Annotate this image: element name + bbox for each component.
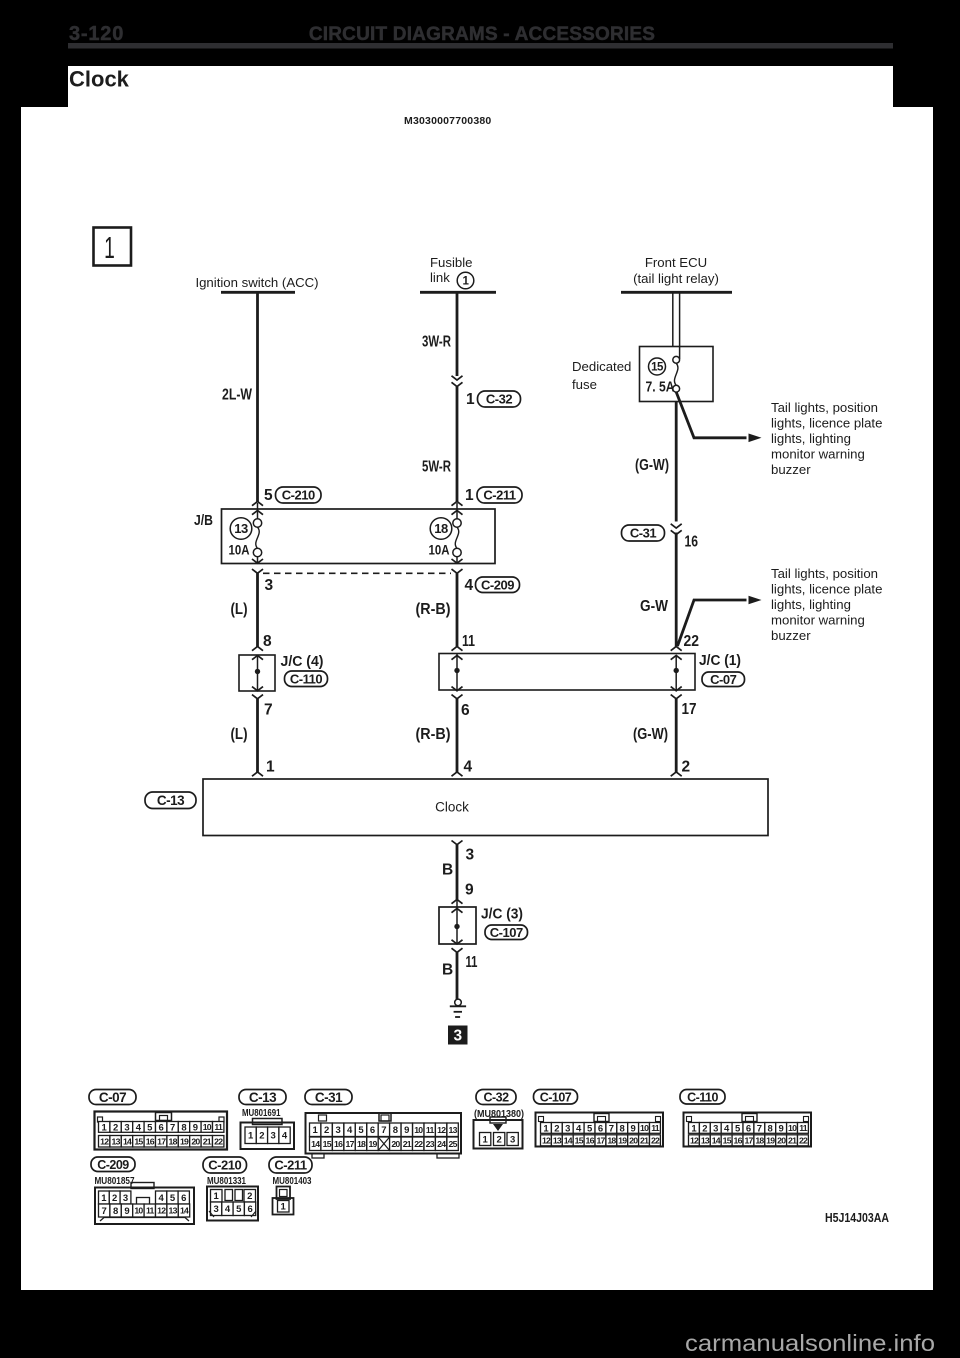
svg-text:11: 11 bbox=[799, 1123, 808, 1133]
svg-text:14: 14 bbox=[564, 1135, 573, 1145]
svg-text:6: 6 bbox=[247, 1204, 252, 1215]
svg-text:B: B bbox=[442, 862, 453, 879]
svg-text:link: link bbox=[430, 270, 450, 285]
svg-text:Fusible: Fusible bbox=[430, 255, 473, 270]
connector pinout C-209 bbox=[91, 1157, 194, 1224]
dashed tie line C-209 bbox=[263, 572, 451, 574]
ground symbol bbox=[455, 999, 462, 1006]
svg-text:J/C (4): J/C (4) bbox=[281, 654, 324, 670]
svg-text:16: 16 bbox=[685, 534, 699, 551]
svg-text:C-211: C-211 bbox=[274, 1158, 306, 1173]
svg-text:6: 6 bbox=[598, 1123, 603, 1134]
svg-text:6: 6 bbox=[461, 702, 470, 719]
svg-text:lights, lighting: lights, lighting bbox=[771, 431, 851, 446]
svg-text:C-07: C-07 bbox=[99, 1090, 126, 1105]
wire (R-B) upper bbox=[456, 573, 459, 646]
svg-text:18: 18 bbox=[357, 1139, 366, 1149]
svg-text:11: 11 bbox=[466, 954, 478, 971]
svg-text:6: 6 bbox=[181, 1193, 186, 1204]
svg-text:17: 17 bbox=[157, 1136, 166, 1146]
svg-text:14: 14 bbox=[311, 1139, 320, 1149]
svg-text:C-31: C-31 bbox=[630, 526, 656, 541]
wire (L) lower bbox=[256, 699, 259, 772]
ground point 3 box bbox=[448, 1026, 468, 1045]
svg-text:20: 20 bbox=[391, 1139, 400, 1149]
svg-text:22: 22 bbox=[684, 633, 700, 650]
svg-text:1: 1 bbox=[101, 1193, 107, 1204]
fuse 13 symbol bbox=[257, 503, 259, 519]
svg-text:4: 4 bbox=[465, 577, 474, 594]
svg-text:1: 1 bbox=[266, 759, 275, 776]
svg-text:J/C (1): J/C (1) bbox=[699, 653, 741, 669]
svg-text:2: 2 bbox=[259, 1131, 264, 1142]
svg-text:7: 7 bbox=[102, 1206, 107, 1217]
svg-text:(L): (L) bbox=[231, 601, 248, 618]
svg-text:12: 12 bbox=[542, 1135, 551, 1145]
connector pinout C-211 bbox=[269, 1157, 312, 1215]
svg-text:8: 8 bbox=[181, 1122, 186, 1133]
ignition switch terminal bar bbox=[221, 291, 295, 294]
wire 5W-R C-32 to J/B bbox=[456, 387, 459, 502]
svg-text:8: 8 bbox=[113, 1206, 118, 1217]
connector marks J/C(1) right exit bbox=[671, 687, 682, 691]
svg-text:4: 4 bbox=[724, 1123, 730, 1134]
joint connector J/C(1) box bbox=[439, 654, 695, 691]
svg-text:9: 9 bbox=[124, 1206, 129, 1217]
svg-text:1: 1 bbox=[104, 232, 115, 266]
svg-text:19: 19 bbox=[368, 1139, 377, 1149]
svg-text:5: 5 bbox=[170, 1193, 176, 1204]
svg-text:22: 22 bbox=[414, 1139, 423, 1149]
svg-text:MU801403: MU801403 bbox=[273, 1175, 312, 1187]
connector pinout C-31 bbox=[305, 1090, 461, 1159]
junction block J/B box bbox=[222, 509, 496, 564]
svg-text:C-07: C-07 bbox=[710, 672, 736, 687]
svg-text:20: 20 bbox=[629, 1135, 638, 1145]
svg-text:2: 2 bbox=[554, 1123, 559, 1134]
wire 3W-R fusible link to C-32 bbox=[456, 292, 459, 376]
connector marks J/C(3) exit bbox=[452, 940, 463, 944]
svg-text:10A: 10A bbox=[229, 543, 250, 558]
svg-text:4: 4 bbox=[282, 1131, 288, 1142]
svg-text:15: 15 bbox=[134, 1136, 143, 1146]
connector pinout C-07 bbox=[89, 1090, 227, 1150]
svg-text:3: 3 bbox=[123, 1193, 128, 1204]
svg-text:21: 21 bbox=[203, 1136, 212, 1146]
svg-text:(MU801380): (MU801380) bbox=[474, 1109, 524, 1120]
svg-text:15: 15 bbox=[723, 1135, 732, 1145]
svg-text:15: 15 bbox=[651, 362, 664, 374]
svg-text:1: 1 bbox=[691, 1123, 697, 1134]
svg-text:4: 4 bbox=[464, 759, 473, 776]
connector label C-32 bbox=[478, 391, 521, 407]
svg-text:C-211: C-211 bbox=[483, 488, 515, 503]
svg-text:6: 6 bbox=[746, 1123, 751, 1134]
junction dot J/C(1) left bbox=[454, 668, 459, 673]
svg-text:7: 7 bbox=[609, 1123, 614, 1134]
wire 2L-W ignition switch to J/B bbox=[256, 292, 259, 502]
svg-text:7: 7 bbox=[381, 1125, 386, 1136]
svg-text:(tail light relay): (tail light relay) bbox=[633, 271, 719, 286]
wire G-W C-31 to J/C(1) bbox=[675, 533, 678, 647]
svg-text:M3030007700380: M3030007700380 bbox=[404, 115, 491, 127]
svg-text:C-110: C-110 bbox=[687, 1090, 718, 1104]
svg-text:7: 7 bbox=[757, 1123, 762, 1134]
dedicated fuse box bbox=[640, 347, 714, 402]
svg-text:(L): (L) bbox=[231, 726, 248, 743]
fuse symbol 7.5A bbox=[673, 356, 680, 363]
svg-text:C-107: C-107 bbox=[540, 1090, 572, 1104]
svg-text:lights, licence plate: lights, licence plate bbox=[771, 582, 882, 597]
svg-text:Tail lights, position: Tail lights, position bbox=[771, 566, 878, 581]
connector label C-07 bbox=[702, 672, 745, 687]
svg-text:(R-B): (R-B) bbox=[416, 601, 451, 618]
svg-text:2: 2 bbox=[112, 1193, 117, 1204]
svg-text:Tail lights, position: Tail lights, position bbox=[771, 400, 878, 415]
svg-text:1: 1 bbox=[465, 487, 474, 504]
svg-text:3-120: 3-120 bbox=[69, 23, 124, 45]
svg-text:3W-R: 3W-R bbox=[422, 334, 451, 351]
svg-text:1: 1 bbox=[102, 1122, 108, 1133]
svg-text:carmanualsonline.info: carmanualsonline.info bbox=[685, 1330, 935, 1356]
svg-text:8: 8 bbox=[768, 1123, 773, 1134]
connector marks J/C(4) entry bbox=[252, 647, 263, 651]
connector label C-209 bbox=[476, 577, 520, 593]
svg-text:C-209: C-209 bbox=[481, 577, 514, 592]
svg-text:J/C (3): J/C (3) bbox=[481, 907, 523, 923]
svg-text:5: 5 bbox=[264, 487, 273, 504]
svg-text:13: 13 bbox=[112, 1136, 121, 1146]
svg-text:11: 11 bbox=[214, 1122, 223, 1132]
junction dot J/C(4) bbox=[255, 669, 260, 674]
svg-text:18: 18 bbox=[755, 1135, 764, 1145]
svg-text:10: 10 bbox=[640, 1123, 649, 1133]
svg-text:11: 11 bbox=[426, 1125, 435, 1135]
svg-text:fuse: fuse bbox=[572, 377, 597, 392]
svg-text:18: 18 bbox=[434, 521, 448, 536]
svg-text:3: 3 bbox=[271, 1131, 276, 1142]
svg-text:21: 21 bbox=[788, 1135, 797, 1145]
svg-text:C-110: C-110 bbox=[290, 671, 322, 686]
fusible link terminal bar bbox=[420, 291, 496, 294]
svg-text:1: 1 bbox=[281, 1202, 287, 1213]
svg-text:16: 16 bbox=[734, 1135, 743, 1145]
svg-text:C-210: C-210 bbox=[208, 1158, 241, 1173]
connector C-31 inline marks bbox=[671, 524, 682, 528]
svg-text:5: 5 bbox=[147, 1122, 153, 1133]
svg-text:6: 6 bbox=[159, 1122, 164, 1133]
clock exit marks bbox=[452, 841, 463, 845]
connector label C-210 bbox=[276, 487, 322, 503]
svg-text:2: 2 bbox=[496, 1134, 501, 1145]
connector pinout C-107 bbox=[534, 1090, 664, 1147]
wire G-W dedicated fuse to C-31 bbox=[675, 402, 678, 522]
wire (L) upper bbox=[256, 573, 259, 646]
connector label C-110 bbox=[285, 671, 328, 687]
svg-text:1: 1 bbox=[214, 1191, 220, 1202]
connector pinout C-13 bbox=[239, 1090, 294, 1150]
svg-text:11: 11 bbox=[651, 1123, 660, 1133]
figure number box 1 bbox=[94, 228, 132, 266]
svg-text:CIRCUIT DIAGRAMS - ACCESSORIES: CIRCUIT DIAGRAMS - ACCESSORIES bbox=[309, 24, 655, 45]
svg-text:2: 2 bbox=[702, 1123, 707, 1134]
svg-text:9: 9 bbox=[465, 882, 474, 899]
title band background bbox=[68, 66, 893, 107]
svg-text:5: 5 bbox=[587, 1123, 593, 1134]
svg-text:monitor warning: monitor warning bbox=[771, 447, 865, 462]
svg-text:3: 3 bbox=[510, 1134, 515, 1145]
svg-text:11: 11 bbox=[462, 633, 475, 650]
connector marks C-209 middle exit bbox=[452, 559, 463, 563]
svg-text:1: 1 bbox=[482, 1134, 488, 1145]
svg-text:Dedicated: Dedicated bbox=[572, 359, 631, 374]
svg-text:14: 14 bbox=[712, 1135, 721, 1145]
svg-text:8: 8 bbox=[263, 633, 272, 650]
svg-text:G-W: G-W bbox=[640, 598, 668, 615]
svg-text:(G-W): (G-W) bbox=[633, 726, 668, 743]
junction dot J/C(1) right bbox=[674, 668, 679, 673]
svg-text:MU801331: MU801331 bbox=[207, 1175, 246, 1187]
connector marks C-209 left exit bbox=[252, 559, 263, 563]
svg-text:8: 8 bbox=[620, 1123, 625, 1134]
svg-text:22: 22 bbox=[214, 1136, 223, 1146]
svg-text:7: 7 bbox=[264, 702, 273, 719]
svg-text:19: 19 bbox=[766, 1135, 775, 1145]
svg-text:21: 21 bbox=[640, 1135, 649, 1145]
svg-text:9: 9 bbox=[631, 1123, 636, 1134]
svg-text:14: 14 bbox=[123, 1136, 132, 1146]
svg-text:17: 17 bbox=[596, 1135, 605, 1145]
svg-text:21: 21 bbox=[403, 1139, 412, 1149]
svg-text:2: 2 bbox=[324, 1125, 329, 1136]
svg-text:1: 1 bbox=[313, 1125, 319, 1136]
fuse 13 circled number bbox=[230, 518, 252, 540]
connector marks J/C(1) middle exit bbox=[452, 687, 463, 691]
svg-text:18: 18 bbox=[169, 1136, 178, 1146]
svg-text:B: B bbox=[442, 962, 453, 979]
svg-text:10: 10 bbox=[414, 1125, 423, 1135]
svg-text:16: 16 bbox=[146, 1136, 155, 1146]
wire B upper bbox=[456, 845, 459, 900]
svg-text:2: 2 bbox=[113, 1122, 118, 1133]
svg-text:5: 5 bbox=[735, 1123, 741, 1134]
svg-text:13: 13 bbox=[701, 1135, 710, 1145]
svg-text:7: 7 bbox=[170, 1122, 175, 1133]
connector marks J/C(3) entry bbox=[452, 900, 463, 904]
fuse 18 symbol bbox=[456, 503, 458, 519]
svg-text:13: 13 bbox=[553, 1135, 562, 1145]
front ECU terminal bar bbox=[621, 291, 732, 294]
svg-text:23: 23 bbox=[426, 1139, 435, 1149]
svg-text:buzzer: buzzer bbox=[771, 628, 811, 643]
svg-text:lights, lighting: lights, lighting bbox=[771, 597, 851, 612]
connector C-32 inline marks bbox=[452, 376, 463, 380]
connector marks C-211 entry bbox=[452, 502, 463, 506]
svg-text:(R-B): (R-B) bbox=[416, 726, 451, 743]
svg-text:20: 20 bbox=[777, 1135, 786, 1145]
svg-text:3: 3 bbox=[124, 1122, 129, 1133]
connector marks J/C(4) exit bbox=[252, 687, 263, 691]
connector pinout C-110 bbox=[680, 1090, 811, 1147]
svg-text:4: 4 bbox=[136, 1122, 142, 1133]
svg-text:13: 13 bbox=[169, 1206, 178, 1216]
svg-text:(G-W): (G-W) bbox=[635, 457, 669, 474]
clock entry marks bbox=[252, 772, 263, 776]
svg-text:buzzer: buzzer bbox=[771, 462, 811, 477]
svg-text:3: 3 bbox=[265, 577, 274, 594]
svg-text:MU801691: MU801691 bbox=[242, 1107, 281, 1119]
svg-text:Clock: Clock bbox=[69, 67, 130, 92]
svg-text:4: 4 bbox=[225, 1204, 231, 1215]
svg-text:17: 17 bbox=[346, 1139, 355, 1149]
svg-text:C-209: C-209 bbox=[97, 1158, 129, 1172]
svg-text:16: 16 bbox=[586, 1135, 595, 1145]
clock component box bbox=[203, 779, 768, 836]
svg-text:12: 12 bbox=[100, 1136, 109, 1146]
fuse 18 circled number bbox=[430, 518, 452, 540]
svg-text:19: 19 bbox=[180, 1136, 189, 1146]
joint connector J/C(4) box bbox=[239, 655, 275, 691]
svg-text:4: 4 bbox=[159, 1193, 165, 1204]
svg-text:12: 12 bbox=[157, 1206, 166, 1216]
svg-text:3: 3 bbox=[335, 1125, 340, 1136]
svg-text:Ignition switch (ACC): Ignition switch (ACC) bbox=[195, 275, 318, 290]
svg-text:20: 20 bbox=[191, 1136, 200, 1146]
svg-text:3: 3 bbox=[466, 847, 475, 864]
svg-text:5: 5 bbox=[236, 1204, 242, 1215]
svg-text:8: 8 bbox=[393, 1125, 398, 1136]
svg-text:C-13: C-13 bbox=[157, 793, 185, 808]
svg-text:5W-R: 5W-R bbox=[422, 459, 451, 476]
svg-text:17: 17 bbox=[682, 701, 697, 718]
svg-text:C-32: C-32 bbox=[483, 1091, 509, 1105]
svg-text:C-210: C-210 bbox=[282, 488, 315, 503]
connector label C-13 bbox=[145, 792, 196, 809]
svg-text:22: 22 bbox=[799, 1135, 808, 1145]
svg-text:3: 3 bbox=[713, 1123, 718, 1134]
svg-text:1: 1 bbox=[466, 391, 475, 408]
connector pinout C-32 bbox=[474, 1090, 525, 1149]
svg-text:15: 15 bbox=[575, 1135, 584, 1145]
svg-text:7. 5A: 7. 5A bbox=[646, 379, 675, 396]
svg-text:9: 9 bbox=[779, 1123, 784, 1134]
svg-text:C-107: C-107 bbox=[490, 925, 523, 940]
svg-text:22: 22 bbox=[651, 1135, 660, 1145]
svg-text:10A: 10A bbox=[429, 543, 450, 558]
svg-text:2: 2 bbox=[247, 1191, 252, 1202]
svg-text:25: 25 bbox=[449, 1139, 458, 1149]
connector label C-31 bbox=[622, 525, 665, 541]
svg-text:1: 1 bbox=[543, 1123, 549, 1134]
svg-text:1: 1 bbox=[248, 1131, 254, 1142]
header rule bbox=[68, 43, 893, 49]
svg-text:11: 11 bbox=[146, 1206, 155, 1216]
svg-text:3: 3 bbox=[214, 1204, 219, 1215]
svg-text:6: 6 bbox=[370, 1125, 375, 1136]
svg-text:12: 12 bbox=[690, 1135, 699, 1145]
svg-text:J/B: J/B bbox=[194, 513, 213, 529]
svg-text:13: 13 bbox=[234, 521, 248, 536]
junction dot J/C(3) bbox=[454, 924, 459, 929]
svg-text:3: 3 bbox=[565, 1123, 570, 1134]
svg-text:5: 5 bbox=[358, 1125, 364, 1136]
connector marks C-210 entry bbox=[252, 502, 263, 506]
svg-text:C-32: C-32 bbox=[486, 392, 512, 407]
wire (R-B) lower bbox=[456, 699, 459, 772]
svg-text:MU801857: MU801857 bbox=[95, 1175, 135, 1187]
arrow to tail lights (lower) bbox=[678, 600, 747, 646]
svg-text:C-31: C-31 bbox=[315, 1090, 343, 1105]
svg-text:16: 16 bbox=[334, 1139, 343, 1149]
svg-text:10: 10 bbox=[134, 1206, 143, 1216]
svg-text:H5J14J03AA: H5J14J03AA bbox=[825, 1211, 889, 1225]
wire B lower bbox=[456, 952, 459, 999]
svg-text:14: 14 bbox=[180, 1206, 189, 1216]
svg-text:4: 4 bbox=[576, 1123, 582, 1134]
svg-text:Front ECU: Front ECU bbox=[645, 255, 707, 270]
svg-text:9: 9 bbox=[193, 1122, 198, 1133]
svg-text:15: 15 bbox=[323, 1139, 332, 1149]
connector marks J/C(1) middle entry bbox=[452, 647, 463, 651]
svg-text:9: 9 bbox=[404, 1125, 409, 1136]
svg-text:19: 19 bbox=[618, 1135, 627, 1145]
connector label C-107 bbox=[485, 925, 528, 940]
svg-text:monitor warning: monitor warning bbox=[771, 613, 865, 628]
svg-text:18: 18 bbox=[607, 1135, 616, 1145]
svg-text:3: 3 bbox=[453, 1028, 462, 1045]
svg-text:13: 13 bbox=[449, 1125, 458, 1135]
circled 1 fusible link bbox=[457, 272, 474, 289]
svg-text:24: 24 bbox=[437, 1139, 446, 1149]
circled 15 bbox=[649, 358, 666, 375]
connector pinout C-210 bbox=[203, 1157, 258, 1221]
svg-text:10: 10 bbox=[788, 1123, 797, 1133]
connector marks J/C(1) right entry bbox=[671, 647, 682, 651]
svg-text:17: 17 bbox=[744, 1135, 753, 1145]
svg-text:lights, licence plate: lights, licence plate bbox=[771, 416, 882, 431]
joint connector J/C(3) box bbox=[439, 907, 476, 944]
arrow to tail lights (upper) bbox=[676, 392, 746, 438]
svg-text:4: 4 bbox=[347, 1125, 353, 1136]
svg-text:C-13: C-13 bbox=[249, 1090, 277, 1105]
svg-text:10: 10 bbox=[203, 1122, 212, 1132]
wire (G-W) lower bbox=[675, 699, 678, 772]
svg-text:Clock: Clock bbox=[435, 800, 469, 815]
svg-text:12: 12 bbox=[437, 1125, 446, 1135]
double wire front ECU to dedicated fuse bbox=[672, 292, 674, 347]
connector label C-211 bbox=[477, 487, 522, 503]
svg-text:2L-W: 2L-W bbox=[222, 387, 252, 404]
svg-text:2: 2 bbox=[682, 759, 691, 776]
